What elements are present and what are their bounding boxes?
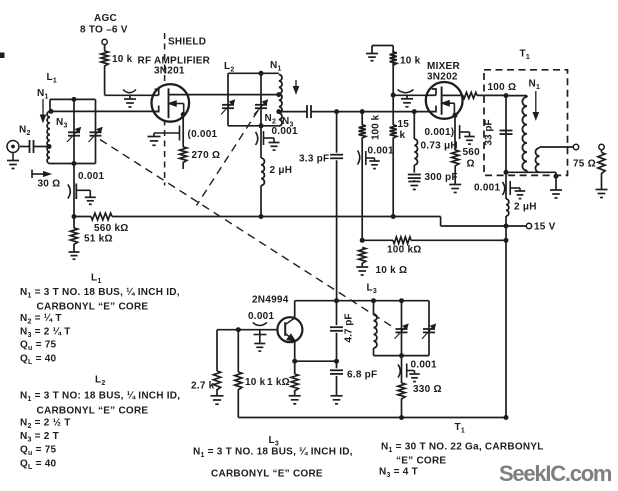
- svg-text:2 μH: 2 μH: [270, 165, 293, 176]
- svg-text:100 Ω: 100 Ω: [488, 82, 517, 93]
- svg-text:10 k Ω: 10 k Ω: [376, 265, 408, 276]
- svg-text:0.73 μH: 0.73 μH: [421, 141, 458, 152]
- svg-text:1 kΩ: 1 kΩ: [267, 377, 290, 388]
- svg-text:4.7 pF: 4.7 pF: [344, 314, 355, 343]
- svg-text:3N201: 3N201: [154, 66, 185, 77]
- svg-text:N1 = 30 T NO. 22 Ga, CARBONYL: N1 = 30 T NO. 22 Ga, CARBONYL: [381, 442, 544, 454]
- svg-text:3N202: 3N202: [427, 72, 458, 83]
- svg-text:300 pF: 300 pF: [425, 172, 458, 183]
- svg-text:N1 = 3 T NO. 18 BUS, ¼ INCH ID: N1 = 3 T NO. 18 BUS, ¼ INCH ID,: [193, 447, 353, 459]
- svg-text:2 μH: 2 μH: [514, 202, 537, 213]
- svg-text:“E” CORE: “E” CORE: [396, 456, 446, 467]
- svg-text:Ω: Ω: [467, 159, 475, 170]
- svg-text:QL = 40: QL = 40: [20, 459, 57, 471]
- svg-text:SeekIC.com: SeekIC.com: [499, 461, 612, 486]
- svg-text:AGC: AGC: [94, 13, 117, 24]
- svg-text:560: 560: [463, 147, 481, 158]
- svg-text:N3 = 2 T: N3 = 2 T: [20, 431, 59, 443]
- svg-text:8 TO –6 V: 8 TO –6 V: [80, 25, 128, 36]
- svg-text:100 kΩ: 100 kΩ: [387, 245, 422, 256]
- svg-text:2.7 k: 2.7 k: [191, 381, 215, 392]
- svg-text:0.001: 0.001: [474, 183, 500, 194]
- svg-text:Qu = 75: Qu = 75: [20, 445, 57, 457]
- svg-text:30 Ω: 30 Ω: [38, 179, 61, 190]
- svg-text:330 Ω: 330 Ω: [413, 384, 442, 395]
- svg-text:15: 15: [398, 119, 410, 130]
- svg-text:N1 = 3 T NO. 18 BUS, ¼ INCH ID: N1 = 3 T NO. 18 BUS, ¼ INCH ID,: [20, 287, 180, 299]
- svg-text:0.001: 0.001: [411, 360, 437, 371]
- svg-text:10 k: 10 k: [400, 56, 421, 67]
- svg-text:0.001: 0.001: [248, 311, 274, 322]
- svg-text:CARBONYL “E” CORE: CARBONYL “E” CORE: [211, 469, 323, 480]
- svg-text:15 V: 15 V: [534, 222, 556, 233]
- svg-text:MIXER: MIXER: [427, 61, 460, 72]
- svg-text:0.001: 0.001: [368, 146, 394, 157]
- svg-text:Qu = 75: Qu = 75: [20, 340, 57, 352]
- svg-text:10 k: 10 k: [112, 54, 133, 65]
- svg-text:10 k: 10 k: [245, 377, 266, 388]
- svg-text:SHIELD: SHIELD: [168, 37, 206, 48]
- svg-text:k: k: [400, 130, 406, 141]
- svg-text:(0.001: (0.001: [188, 129, 218, 140]
- svg-text:100 k: 100 k: [371, 115, 382, 140]
- svg-text:2N4994: 2N4994: [252, 295, 289, 306]
- svg-text:N3 = 4 T: N3 = 4 T: [379, 467, 418, 479]
- svg-text:3.3 pF: 3.3 pF: [299, 154, 329, 165]
- svg-text:33 pF: 33 pF: [484, 119, 495, 145]
- svg-text:0.001: 0.001: [272, 126, 298, 137]
- svg-text:0.001: 0.001: [78, 171, 104, 182]
- svg-text:N2 = ¼ T: N2 = ¼ T: [20, 313, 62, 325]
- svg-text:CARBONYL “E” CORE: CARBONYL “E” CORE: [37, 302, 149, 313]
- svg-text:0.001): 0.001): [425, 127, 455, 138]
- svg-text:N1 = 3 T NO: 18 BUS, ¼ INCH ID: N1 = 3 T NO: 18 BUS, ¼ INCH ID,: [20, 391, 180, 403]
- svg-text:51 kΩ: 51 kΩ: [84, 234, 113, 245]
- svg-text:270 Ω: 270 Ω: [192, 150, 221, 161]
- svg-text:CARBONYL “E” CORE: CARBONYL “E” CORE: [37, 406, 149, 417]
- svg-text:75 Ω: 75 Ω: [573, 159, 596, 170]
- svg-text:560 kΩ: 560 kΩ: [94, 223, 129, 234]
- svg-text:QL = 40: QL = 40: [20, 354, 57, 366]
- svg-text:6.8 pF: 6.8 pF: [347, 370, 377, 381]
